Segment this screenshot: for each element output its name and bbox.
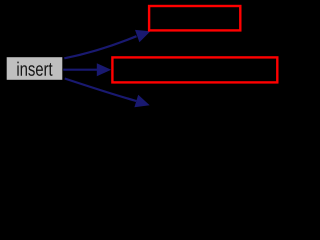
wire edge insert to bottom node xyxy=(65,79,137,102)
node top (red outlined box) xyxy=(149,6,240,30)
arrowhead middle xyxy=(97,63,111,76)
node middle (red outlined box) xyxy=(112,57,277,82)
wire edge insert to middle node xyxy=(63,69,97,71)
arrowhead bottom xyxy=(134,95,149,107)
node insert (gray box) xyxy=(7,57,63,80)
wire edge insert to top node xyxy=(64,36,136,58)
arrowhead top xyxy=(135,30,150,42)
label insert xyxy=(17,62,52,76)
